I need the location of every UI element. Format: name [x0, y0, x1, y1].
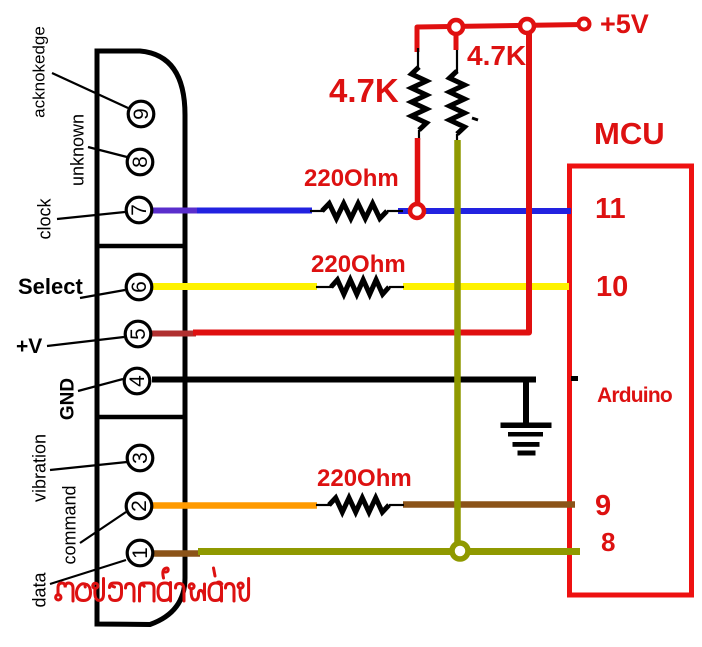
MCU GND pin stub — [571, 376, 578, 381]
svg-text:+5V: +5V — [600, 9, 649, 39]
svg-text:4: 4 — [126, 375, 149, 387]
svg-text:4.7K: 4.7K — [467, 40, 526, 71]
svg-text:220Ohm: 220Ohm — [311, 251, 406, 278]
svg-text:10: 10 — [596, 271, 628, 303]
wire command brown resistor to MCU pin 9 — [403, 501, 575, 508]
svg-text:1: 1 — [129, 547, 152, 559]
resistor 4.7K left (clock pull-up) — [417, 48, 419, 68]
wire +5V rail (red, top) — [417, 25, 584, 53]
wire clock purple segment at pin7 — [152, 208, 197, 214]
pointer line GND — [78, 379, 123, 391]
svg-text:11: 11 — [595, 193, 626, 225]
pointer line clock — [57, 212, 125, 219]
pointer line data — [50, 560, 126, 584]
pin 6 — [126, 274, 152, 300]
pointer line vibration — [50, 462, 127, 470]
svg-text:vibration: vibration — [29, 434, 49, 502]
svg-text:+V: +V — [16, 335, 42, 358]
resistor 220Ohm command — [316, 504, 330, 506]
stray mark near 4.7K right — [472, 118, 478, 120]
connector divider lower — [95, 415, 185, 420]
svg-text:5: 5 — [127, 328, 150, 340]
resistor 4.7K right (data pull-up) — [454, 33, 459, 50]
svg-text:2: 2 — [128, 500, 151, 512]
pointer line unknown — [88, 147, 127, 157]
wire +V vertical drop to pin5 (red) — [193, 27, 529, 333]
svg-text:8: 8 — [601, 527, 615, 557]
wire GND black pin4 — [152, 377, 536, 383]
pin 8 — [127, 149, 153, 175]
wire red lead below 4.7K left — [415, 138, 421, 208]
MCU box (Arduino) — [570, 166, 692, 595]
ground symbol — [501, 379, 552, 456]
wire olive vertical (data pull-up) — [454, 140, 461, 551]
pin 3 — [127, 445, 153, 471]
svg-text:220Ohm: 220Ohm — [317, 465, 412, 492]
pointer line command — [80, 512, 126, 543]
wire select yellow pin6 to resistor — [152, 283, 317, 290]
connector shell J1 (PS2 plug viewed from below) — [97, 51, 185, 625]
pin 7 — [126, 197, 152, 223]
wire data brown segment at pin1 — [152, 550, 200, 557]
wire +V dark red segment at pin5 — [152, 331, 196, 337]
svg-text:command: command — [59, 485, 79, 564]
resistor 220Ohm select — [316, 286, 332, 288]
node +5V rail right (red ring) — [520, 19, 534, 33]
node junction data/pull-up (olive ring) — [452, 543, 468, 559]
svg-text:8: 8 — [129, 156, 152, 168]
label Thai caption (viewed from below) — [56, 568, 249, 601]
connector divider upper — [95, 244, 185, 249]
node junction clock/pull-up (red ring) — [410, 204, 424, 218]
svg-text:clock: clock — [34, 197, 54, 239]
pin 1 — [127, 540, 153, 566]
pin 4 — [124, 368, 150, 394]
svg-text:GND: GND — [58, 378, 79, 420]
pointer line Select — [80, 290, 125, 298]
svg-text:9: 9 — [130, 108, 153, 120]
wire select yellow resistor to MCU pin 10 — [403, 283, 569, 290]
svg-text:3: 3 — [129, 452, 152, 464]
pointer line acknokedge — [52, 73, 128, 108]
svg-text:4.7K: 4.7K — [329, 72, 399, 109]
node +5V terminal (red ring) — [579, 19, 590, 30]
pin 5 — [125, 321, 151, 347]
svg-text:MCU: MCU — [594, 116, 665, 151]
svg-text:Select: Select — [18, 274, 83, 299]
wire command orange pin2 to resistor — [152, 502, 317, 509]
svg-text:7: 7 — [128, 204, 151, 216]
svg-text:9: 9 — [595, 490, 611, 522]
pointer line +V — [47, 337, 124, 346]
wire clock blue resistor to MCU pin 11 — [398, 208, 571, 214]
svg-text:6: 6 — [128, 281, 151, 293]
svg-text:acknokedge: acknokedge — [29, 26, 48, 118]
pin 9 — [128, 101, 154, 127]
pin 2 — [126, 493, 152, 519]
wire clock blue pin7 to resistor — [197, 208, 312, 214]
svg-text:unknown: unknown — [67, 114, 87, 186]
resistor 220Ohm clock — [310, 210, 323, 212]
svg-text:data: data — [29, 572, 49, 608]
node +5V rail left (red ring) — [449, 20, 463, 34]
wire data olive pin1 to MCU pin 8 — [198, 548, 580, 555]
svg-text:Arduino: Arduino — [597, 384, 672, 407]
svg-text:220Ohm: 220Ohm — [304, 165, 399, 192]
